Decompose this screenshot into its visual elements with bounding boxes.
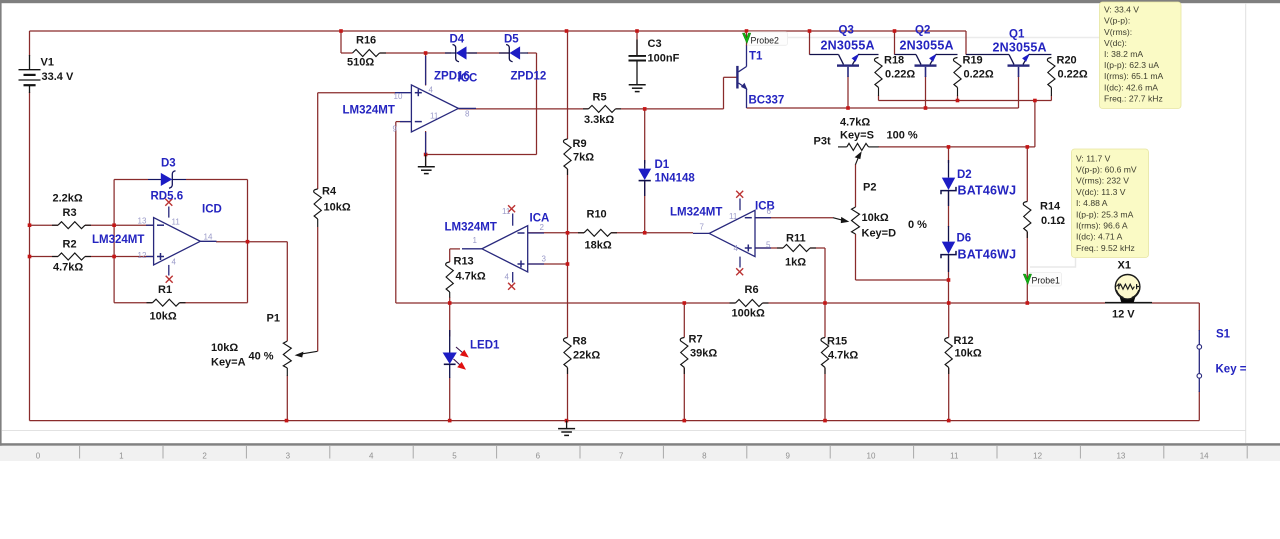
svg-text:2: 2 <box>540 223 545 232</box>
potentiometer P2 body <box>852 207 860 234</box>
wire R2 to ICD pin12 <box>85 256 154 258</box>
page boundary horizontal <box>2 430 1246 432</box>
svg-text:10: 10 <box>394 92 403 101</box>
svg-text:R13: R13 <box>454 256 474 268</box>
wire Q2 collector drop <box>894 31 896 55</box>
svg-text:ICC: ICC <box>458 73 478 85</box>
wire ICB pin6 to P2 wiper <box>755 217 833 219</box>
node D2 top <box>947 145 951 149</box>
svg-text:4: 4 <box>429 86 434 95</box>
svg-text:Q3: Q3 <box>839 25 854 37</box>
node R7 bottom <box>683 419 687 423</box>
resistor R8 lead <box>567 368 569 375</box>
svg-text:C3: C3 <box>648 38 662 50</box>
capacitor C3 <box>629 40 647 85</box>
svg-text:V(rms):: V(rms): <box>1104 27 1132 37</box>
resistor R10 body <box>578 229 617 236</box>
svg-text:I(rms): 96.6 A: I(rms): 96.6 A <box>1076 221 1128 231</box>
probe leader line 2 <box>780 37 1100 39</box>
svg-text:R2: R2 <box>63 239 77 251</box>
zener diode D5 <box>499 45 528 62</box>
lamp X1 terminals <box>1105 302 1152 304</box>
svg-text:10kΩ: 10kΩ <box>324 202 351 214</box>
node probe2 / T1 collector <box>745 29 749 33</box>
resistor R4 lead <box>317 219 319 227</box>
wire Q1 base drop <box>1018 76 1020 108</box>
svg-text:V: 33.4 V: V: 33.4 V <box>1104 5 1139 15</box>
svg-text:D2: D2 <box>957 169 972 181</box>
probe1 arrow <box>1023 274 1031 285</box>
potentiometer P1 wiper arrow <box>295 351 318 357</box>
X mark ICA pin4 <box>508 283 515 290</box>
svg-text:2N3055A: 2N3055A <box>900 39 954 53</box>
svg-text:7: 7 <box>619 452 624 461</box>
top gray bar <box>0 0 1280 3</box>
resistor R20 lead <box>1050 88 1052 97</box>
wire battery bottom / left rail <box>29 92 31 421</box>
svg-text:7kΩ: 7kΩ <box>573 152 594 164</box>
wire ICC output / R5 line <box>458 108 588 110</box>
svg-text:10kΩ: 10kΩ <box>955 348 982 360</box>
svg-text:S1: S1 <box>1216 329 1231 341</box>
svg-text:BAT46WJ: BAT46WJ <box>958 184 1017 198</box>
svg-text:BC337: BC337 <box>749 95 785 107</box>
potentiometer P1 bottom lead <box>286 368 288 376</box>
svg-text:I(dc): 4.71 A: I(dc): 4.71 A <box>1076 232 1123 242</box>
probe2 measurement box <box>1100 2 1182 109</box>
X mark ICB pin4 <box>736 268 743 275</box>
wire R20 bottom <box>1050 96 1052 101</box>
svg-text:LM324MT: LM324MT <box>92 234 144 246</box>
potentiometer P3t body <box>838 143 879 150</box>
wire ICD loop right vertical <box>247 180 249 303</box>
node R9 top tap <box>565 29 569 33</box>
wire R19 bottom <box>957 96 959 101</box>
node P1 bottom <box>285 419 289 423</box>
wire Q3 base drop <box>847 76 849 108</box>
svg-text:4: 4 <box>734 244 739 253</box>
svg-text:11: 11 <box>172 218 181 227</box>
node C3 tap <box>635 29 639 33</box>
svg-text:2: 2 <box>202 452 207 461</box>
ruler ticks <box>80 446 1248 459</box>
svg-text:ICB: ICB <box>755 201 775 213</box>
node R13/LED/y303 <box>448 301 452 305</box>
lamp X1 bulb <box>1115 275 1140 300</box>
wire top +33V rail <box>30 30 967 32</box>
resistor R9 body <box>563 139 571 169</box>
svg-text:R7: R7 <box>689 334 703 346</box>
X mark ICD pin11 <box>165 199 172 206</box>
wire ICA+ node down through R8 <box>567 264 569 338</box>
wire R7 column <box>683 303 685 338</box>
svg-text:11: 11 <box>950 452 959 461</box>
resistor R3 body <box>52 222 91 229</box>
svg-text:4.7kΩ: 4.7kΩ <box>456 271 486 283</box>
wire D2-D6 link <box>948 192 950 228</box>
left gray border <box>0 3 2 446</box>
svg-text:13: 13 <box>138 217 147 226</box>
svg-text:Key=D: Key=D <box>862 228 897 240</box>
wire D1 column bottom <box>644 182 646 233</box>
svg-text:Q2: Q2 <box>915 25 930 37</box>
zener diode D3 <box>148 171 186 188</box>
wire R2 left <box>30 256 59 258</box>
svg-text:3.3kΩ: 3.3kΩ <box>584 114 614 126</box>
wire Q3 collector drop <box>809 31 811 55</box>
svg-text:0.22Ω: 0.22Ω <box>964 69 994 81</box>
resistor R8 body <box>563 338 571 368</box>
node bus drop <box>1033 99 1037 103</box>
wire ICD output to P1 column <box>216 241 287 243</box>
svg-text:D1: D1 <box>655 159 670 171</box>
svg-text:39kΩ: 39kΩ <box>690 348 717 360</box>
wire R13 bottom to y303 <box>449 297 451 303</box>
svg-text:1: 1 <box>473 236 478 245</box>
svg-text:RD5.6: RD5.6 <box>151 191 184 203</box>
svg-text:0: 0 <box>36 452 41 461</box>
node Q3 base <box>846 106 850 110</box>
svg-text:22kΩ: 22kΩ <box>573 350 600 362</box>
svg-text:4: 4 <box>505 273 510 282</box>
switch S1 <box>1197 330 1202 392</box>
svg-text:P3t: P3t <box>814 136 831 148</box>
node ICC supply zener tap <box>424 51 428 55</box>
svg-text:I: 38.2 mA: I: 38.2 mA <box>1104 49 1143 59</box>
LED1 <box>443 330 457 378</box>
svg-text:1kΩ: 1kΩ <box>785 257 806 269</box>
probe2 chip <box>748 32 788 46</box>
svg-text:D6: D6 <box>957 233 972 245</box>
svg-text:14: 14 <box>204 233 213 242</box>
svg-text:40 %: 40 % <box>249 351 274 363</box>
svg-text:7: 7 <box>700 223 705 232</box>
wire R4 column bottom to P1 wiper <box>317 227 319 351</box>
wire P2 bottom loop <box>855 234 857 280</box>
svg-text:8: 8 <box>465 110 470 119</box>
svg-text:Q1: Q1 <box>1009 29 1025 41</box>
wire T1 collector top <box>746 31 748 46</box>
resistor R15 lead <box>824 368 826 375</box>
resistor R7 body <box>680 338 688 368</box>
wire R18 bottom <box>878 96 880 101</box>
transistor Q3 2N3055A <box>810 54 879 78</box>
svg-text:I(p-p): 25.3 mA: I(p-p): 25.3 mA <box>1076 209 1134 219</box>
svg-text:R19: R19 <box>963 55 983 67</box>
resistor R13 body <box>446 262 454 292</box>
wire R4 column top (ICC + input) <box>318 92 396 94</box>
svg-text:6: 6 <box>767 207 772 216</box>
svg-text:10kΩ: 10kΩ <box>150 311 177 323</box>
transistor Q2 2N3055A <box>895 54 958 78</box>
resistor R19 lead <box>957 88 959 97</box>
svg-text:13: 13 <box>1116 452 1125 461</box>
node clamp/ground <box>424 153 428 157</box>
op-amp ICC <box>395 56 476 154</box>
svg-text:I(rms): 65.1 mA: I(rms): 65.1 mA <box>1104 71 1163 81</box>
svg-text:ICD: ICD <box>202 204 222 216</box>
node Q2 base <box>924 106 928 110</box>
potentiometer P3t wiper arrow <box>855 151 862 164</box>
svg-text:R14: R14 <box>1040 201 1061 213</box>
svg-text:V(rms): 232 V: V(rms): 232 V <box>1076 176 1129 186</box>
svg-text:2.2kΩ: 2.2kΩ <box>53 193 83 205</box>
node LED bottom <box>448 419 452 423</box>
svg-text:R8: R8 <box>573 336 587 348</box>
lamp X1 base <box>1120 297 1136 304</box>
resistor R7 lead <box>683 368 685 375</box>
resistor R16 body <box>353 50 387 57</box>
svg-text:Key =: Key = <box>1216 364 1247 376</box>
schottky diode D6 <box>941 226 956 272</box>
wire R16 to zeners <box>380 52 452 54</box>
resistor R11 body <box>777 245 816 252</box>
svg-text:33.4 V: 33.4 V <box>42 71 74 83</box>
svg-text:12 V: 12 V <box>1112 309 1135 321</box>
node probe1 <box>1026 301 1030 305</box>
wire Q2 base drop <box>925 76 927 108</box>
wire R14 column <box>1026 147 1028 202</box>
svg-text:Freq.: 27.7 kHz: Freq.: 27.7 kHz <box>1104 93 1163 103</box>
wire R3 left <box>30 224 59 226</box>
svg-text:1: 1 <box>119 452 124 461</box>
wire ICD loop top (D3 net) <box>114 179 148 181</box>
svg-text:0.22Ω: 0.22Ω <box>1058 69 1088 81</box>
wire emitter-resistor bus <box>879 100 1052 102</box>
svg-text:LM324MT: LM324MT <box>670 207 722 219</box>
svg-text:18kΩ: 18kΩ <box>585 240 612 252</box>
svg-text:LM324MT: LM324MT <box>445 222 497 234</box>
probe1 measurement box <box>1072 149 1149 258</box>
svg-text:D4: D4 <box>450 34 465 46</box>
wire P1 bottom to rail <box>286 376 288 421</box>
resistor R19 body <box>953 58 961 88</box>
svg-text:0 %: 0 % <box>908 219 927 231</box>
X mark ICA pin11 <box>508 205 515 212</box>
svg-text:100kΩ: 100kΩ <box>732 308 765 320</box>
svg-text:ZPD12: ZPD12 <box>511 71 547 83</box>
wire LED1 column <box>449 303 451 337</box>
node ICD in+ left rail <box>28 255 32 259</box>
wire bottom rail <box>30 420 1200 422</box>
X mark ICD pin4 <box>166 276 173 283</box>
node R11/R15 <box>823 301 827 305</box>
resistor R12 body <box>945 338 953 368</box>
svg-text:LM324MT: LM324MT <box>343 105 395 117</box>
node Q3 collector <box>808 29 812 33</box>
wire ICC inverting input down <box>396 121 411 123</box>
wire ICA output to R13 <box>450 248 460 250</box>
svg-text:9: 9 <box>785 452 790 461</box>
wire D4-D5 link <box>468 52 510 54</box>
resistor R6 body <box>730 300 769 307</box>
svg-text:V(p-p):: V(p-p): <box>1104 16 1130 26</box>
wire ICB pin5 to R11 <box>755 247 783 249</box>
svg-text:Probe2: Probe2 <box>751 36 779 46</box>
wire ICC pin4 supply stub <box>425 53 427 86</box>
svg-text:4: 4 <box>172 258 177 267</box>
resistor R18 lead <box>878 88 880 97</box>
svg-text:11: 11 <box>430 112 439 121</box>
wire R9 to ICA - node <box>567 169 569 264</box>
wire D6 bottom column <box>948 256 950 304</box>
wire Q1 collector drop <box>965 31 967 55</box>
resistor R4 body <box>314 189 322 219</box>
resistor R1 body <box>147 299 186 306</box>
wire T1 base lead <box>724 76 737 78</box>
wire R12 column <box>948 303 950 338</box>
resistor R20 body <box>1047 58 1055 88</box>
node loop pin13 <box>112 223 116 227</box>
svg-text:Probe1: Probe1 <box>1032 276 1060 286</box>
node R5/D1 <box>643 107 647 111</box>
svg-text:3: 3 <box>286 452 291 461</box>
resistor R12 lead <box>948 368 950 375</box>
svg-text:4: 4 <box>369 452 374 461</box>
op-amp ICB (mirrored) <box>693 199 771 268</box>
svg-text:P1: P1 <box>267 313 280 325</box>
node ICD output loop <box>246 240 250 244</box>
svg-text:R4: R4 <box>322 186 337 198</box>
svg-text:Key=S: Key=S <box>840 130 874 142</box>
svg-text:R12: R12 <box>954 335 974 347</box>
wire P3t right lead to R14 node <box>878 146 1027 148</box>
op-amp ICD <box>146 207 217 276</box>
svg-text:BAT46WJ: BAT46WJ <box>958 248 1017 262</box>
wire R15 column <box>824 303 826 338</box>
node ICA+/R8 <box>566 262 570 266</box>
resistor R2 body <box>52 253 91 260</box>
svg-text:100nF: 100nF <box>648 53 680 65</box>
svg-text:10kΩ: 10kΩ <box>862 212 889 224</box>
svg-text:R5: R5 <box>593 92 607 104</box>
wire clamp return to ICC pin11 <box>426 154 537 156</box>
svg-text:V(p-p): 60.6 mV: V(p-p): 60.6 mV <box>1076 165 1137 175</box>
X mark ICB pin11 <box>736 191 743 198</box>
diode D1 <box>638 160 651 196</box>
page boundary vertical <box>1245 3 1247 443</box>
wire y303 feedback start <box>396 302 450 304</box>
op-amp ICA (mirrored) <box>462 214 544 283</box>
svg-text:5: 5 <box>766 241 771 250</box>
wire ICA pin2 / R10 line <box>528 232 584 234</box>
svg-text:R3: R3 <box>63 207 77 219</box>
node R7 top <box>683 301 687 305</box>
node R19 bus <box>956 99 960 103</box>
resistor R18 body <box>874 58 882 88</box>
wire ICC pin11 to ground <box>425 131 427 167</box>
svg-text:11: 11 <box>502 207 511 216</box>
node R8/ground bottom <box>565 419 569 423</box>
svg-text:R1: R1 <box>158 284 172 296</box>
lamp X1 glass arcs <box>1117 290 1139 298</box>
ruler numbers <box>36 452 1209 461</box>
resistor R14 lead <box>1026 232 1028 239</box>
svg-text:12: 12 <box>1033 452 1042 461</box>
ground under C3 <box>629 85 646 92</box>
node R9/R10/ICA- <box>566 231 570 235</box>
svg-text:R6: R6 <box>745 284 759 296</box>
svg-text:6: 6 <box>536 452 541 461</box>
svg-text:R20: R20 <box>1057 55 1077 67</box>
wire C3 column <box>636 31 638 55</box>
wire ICD loop left vertical <box>113 180 115 303</box>
node R16 tap <box>339 29 343 33</box>
svg-text:8: 8 <box>702 452 707 461</box>
resistor R13 lead <box>449 292 451 298</box>
wire D1 column top <box>644 109 646 164</box>
potentiometer P1 body <box>283 341 291 368</box>
node D1/ICB output <box>643 231 647 235</box>
svg-text:2N3055A: 2N3055A <box>821 39 875 53</box>
node Q2 collector <box>893 29 897 33</box>
svg-text:4.7kΩ: 4.7kΩ <box>828 350 858 362</box>
wire P3t wiper down to P2 <box>855 164 857 207</box>
svg-text:100 %: 100 % <box>887 130 918 142</box>
ruler band <box>0 446 1280 461</box>
resistor R14 body <box>1023 202 1031 232</box>
svg-text:P2: P2 <box>863 182 876 194</box>
node ICD in- left rail <box>28 223 32 227</box>
wire ICD loop bottom (R1 net) <box>114 302 152 304</box>
svg-text:D5: D5 <box>504 34 519 46</box>
wire ICA pin3 lead <box>528 263 568 265</box>
probe leader line 1 <box>1030 258 1076 267</box>
svg-text:D3: D3 <box>161 158 176 170</box>
schottky diode D2 <box>941 160 956 206</box>
svg-text:T1: T1 <box>749 51 763 63</box>
svg-text:0.1Ω: 0.1Ω <box>1041 215 1065 227</box>
wire D2 column top <box>948 147 950 163</box>
node loop pin12 <box>112 255 116 259</box>
svg-text:10kΩ: 10kΩ <box>211 342 238 354</box>
svg-text:14: 14 <box>1200 452 1209 461</box>
wire R8 bottom to rail <box>567 368 569 421</box>
svg-text:R11: R11 <box>786 233 806 245</box>
svg-text:X1: X1 <box>1118 260 1131 272</box>
svg-text:R9: R9 <box>573 138 587 150</box>
svg-text:Freq.: 9.52 kHz: Freq.: 9.52 kHz <box>1076 243 1135 253</box>
svg-text:V(dc): 11.3 V: V(dc): 11.3 V <box>1076 187 1126 197</box>
svg-text:2N3055A: 2N3055A <box>993 41 1047 55</box>
svg-text:R10: R10 <box>587 209 607 221</box>
node R12 bottom <box>947 419 951 423</box>
svg-text:R16: R16 <box>356 35 376 47</box>
svg-text:0.22Ω: 0.22Ω <box>885 69 915 81</box>
node R15 bottom <box>823 419 827 423</box>
node R14 top <box>1026 145 1030 149</box>
svg-text:V1: V1 <box>41 57 54 69</box>
wire bus drop to P3t net <box>1034 101 1036 147</box>
wire S1 bottom to rail <box>1198 391 1200 421</box>
probe2 arrow <box>742 33 750 44</box>
wire R16 feed vertical <box>340 31 342 53</box>
zener diode D4 <box>445 45 477 62</box>
transistor T1 BC337 <box>736 46 747 109</box>
svg-text:R15: R15 <box>827 336 847 348</box>
svg-text:LED1: LED1 <box>470 340 500 352</box>
svg-text:12: 12 <box>138 251 147 260</box>
node R12 top <box>947 301 951 305</box>
svg-text:R18: R18 <box>884 55 904 67</box>
LED1 emission arrows <box>454 347 469 370</box>
wire R11 right corner down <box>810 247 825 249</box>
wire T1 emitter bus (driver bus) <box>747 107 1019 109</box>
svg-text:9: 9 <box>393 125 398 134</box>
svg-text:10: 10 <box>867 452 876 461</box>
wire R3 to ICD pin13 <box>85 224 154 226</box>
transistor Q1 2N3055A <box>966 54 1051 78</box>
